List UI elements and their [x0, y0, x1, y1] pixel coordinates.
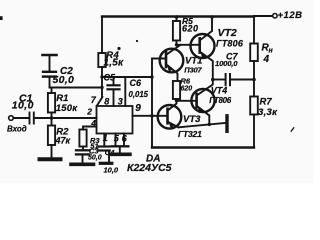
svg-text:10,0: 10,0 [104, 165, 119, 174]
op-amp U1 designator [127, 154, 172, 175]
ground under R2 [40, 157, 61, 161]
svg-text:1000,0: 1000,0 [215, 59, 238, 68]
transistor VT4 label [209, 86, 231, 105]
resistor R1 label [56, 93, 78, 114]
svg-text:C6: C6 [130, 78, 142, 88]
svg-text:н: н [269, 48, 274, 55]
transistor VT2 label [216, 27, 244, 49]
wire A (C2/R1 node to R4 line) [50, 87, 103, 89]
svg-text:1: 1 [103, 133, 108, 143]
capacitor C7 [226, 74, 230, 85]
capacitor C3 [76, 150, 89, 162]
svg-text:620: 620 [181, 85, 193, 92]
svg-text:10,0: 10,0 [12, 100, 34, 112]
node dot wireA-R4 [100, 86, 103, 89]
node +12V terminal [273, 14, 277, 18]
wire right column (Rn R7 branch) [253, 17, 255, 44]
speck near C6 top [136, 40, 138, 42]
wire R6 to VT4 base [177, 100, 196, 102]
pin 7 lead [97, 97, 103, 106]
svg-text:3,3к: 3,3к [258, 107, 278, 118]
wire joining pins 5 6 [112, 145, 129, 147]
op-amp U1 (IC DA K224US5 box) [97, 106, 133, 134]
wire +12V feed [254, 15, 272, 17]
resistor R2 [48, 118, 55, 158]
capacitor C2 label [53, 66, 75, 86]
resistor R4 [98, 53, 105, 67]
node dot R6-VT3coll [175, 99, 178, 102]
pin 9 wire [133, 115, 167, 117]
node dot bases-bus [150, 114, 154, 118]
resistor R3 [79, 130, 86, 150]
capacitor C5 [108, 77, 120, 106]
capacitor C2 top bar [43, 54, 57, 57]
wire output node to C7 [213, 79, 225, 81]
capacitor C7 label [215, 52, 238, 68]
ground chassis bar (vertical) [225, 116, 228, 132]
svg-text:1,5к: 1,5к [104, 57, 125, 68]
wire R4 branch from rail [101, 17, 103, 54]
svg-text:620: 620 [182, 23, 199, 33]
svg-text:0,015: 0,015 [129, 90, 149, 99]
svg-text:ГТ806: ГТ806 [209, 96, 231, 105]
wire 5/6 to ground [119, 148, 121, 153]
resistor R5 [173, 17, 180, 45]
svg-text:+12В: +12В [278, 10, 303, 21]
resistor R7 [250, 97, 258, 115]
capacitor C1 label [12, 92, 34, 111]
wire Rn to C7 node [253, 61, 255, 97]
pin 6 wire [123, 134, 125, 146]
ground under C4 [100, 162, 112, 165]
resistor R2 label [55, 127, 71, 146]
node dot VT2 collector rail [210, 15, 214, 19]
capacitor C4 label [104, 148, 119, 174]
ground under C3 [71, 163, 94, 167]
svg-text:8: 8 [104, 96, 109, 106]
capacitor C4 [99, 147, 110, 162]
resistor Rn label [262, 43, 274, 66]
svg-text:150к: 150к [56, 103, 78, 114]
wire emitters to chassis bar [179, 123, 226, 127]
resistor R4 label [104, 50, 125, 69]
svg-text:3: 3 [118, 96, 123, 106]
svg-text:6: 6 [122, 134, 128, 144]
resistor R5 label [182, 16, 199, 33]
capacitor C3 label [88, 147, 102, 162]
svg-text:5: 5 [114, 134, 120, 144]
pin 5 wire [115, 134, 117, 146]
resistor R6 label [181, 76, 193, 92]
svg-text:50,0: 50,0 [88, 155, 102, 162]
speck top left edge [0, 16, 3, 20]
speck right margin [291, 128, 294, 131]
wire R4 to pin7 [101, 67, 103, 97]
capacitor C1 [30, 113, 34, 124]
wire input to C1 [13, 117, 28, 119]
resistor Rn [250, 44, 258, 62]
svg-text:7: 7 [91, 95, 97, 105]
transistor VT2 [191, 17, 215, 80]
pin 4 lead [83, 127, 97, 130]
transistor VT1 label [184, 56, 202, 75]
svg-text:VT4: VT4 [211, 86, 228, 96]
svg-text:4: 4 [90, 118, 96, 128]
wire C1 to pin2 [35, 117, 97, 119]
pin 3 wire [124, 77, 126, 106]
svg-text:2: 2 [86, 107, 92, 117]
node input terminal [9, 116, 14, 121]
wire VT1 collector node to VT2 base [177, 44, 199, 46]
resistor R7 label [258, 96, 278, 118]
svg-text:П307: П307 [184, 66, 202, 75]
svg-text:К224УС5: К224УС5 [127, 162, 172, 174]
wire bus to C5/pin3 [102, 76, 152, 78]
wire bottom rail [152, 146, 254, 148]
svg-text:R6: R6 [181, 76, 191, 85]
transistor VT4 [191, 80, 214, 125]
svg-text:50,0: 50,0 [53, 74, 75, 86]
node dot bus-R4 [100, 75, 103, 78]
resistor R3 label [90, 136, 100, 151]
svg-text:VT3: VT3 [183, 114, 201, 125]
resistor R1 [48, 88, 55, 119]
svg-text:ГТ806: ГТ806 [216, 39, 244, 49]
speck left of C6 [117, 47, 120, 50]
svg-text:ГТ321: ГТ321 [178, 129, 202, 139]
capacitor C2 [43, 56, 56, 88]
svg-text:Вход: Вход [7, 125, 27, 134]
node dot input-R1-R2 [50, 116, 54, 120]
capacitor C6 label [129, 78, 149, 99]
node dot R5 rail [175, 15, 179, 19]
node dot output (C7) [211, 78, 215, 82]
node dot C7 column [252, 78, 256, 82]
wire C7 to right column [231, 79, 254, 81]
transistor VT3 [158, 101, 182, 129]
svg-text:VT2: VT2 [218, 27, 237, 39]
wire bases line (x152) [152, 59, 166, 148]
node dot R5-VT2base [175, 43, 178, 46]
node dot bus end [150, 75, 153, 78]
resistor R6 [173, 81, 180, 101]
svg-text:4: 4 [263, 54, 270, 65]
svg-text:R7: R7 [260, 96, 273, 107]
svg-text:47к: 47к [55, 135, 71, 145]
svg-text:9: 9 [135, 103, 141, 114]
transistor VT3 label [178, 114, 202, 139]
wire top supply rail [102, 15, 254, 17]
transistor VT1 [160, 45, 184, 81]
svg-text:C5: C5 [104, 73, 116, 83]
pin 1 wire [103, 134, 105, 146]
wire R7 down to bottom rail [253, 115, 255, 148]
node dot VT4 emitter [208, 123, 211, 126]
ground under pins 5 6 [111, 153, 130, 157]
